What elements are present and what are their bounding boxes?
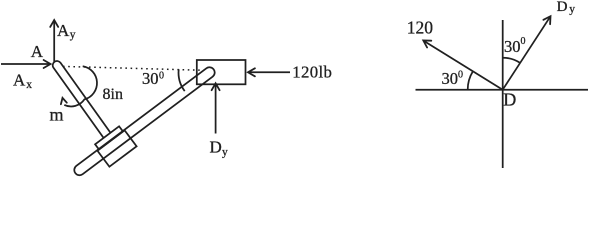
reaction arrow Ax [1, 60, 51, 68]
label Dy vector (right figure) [557, 0, 576, 16]
svg-text:y: y [569, 4, 575, 16]
rod CD (long link at 30deg to box) [72, 65, 217, 177]
label Ax [13, 71, 32, 92]
x axis (right figure) [416, 89, 589, 91]
label 30deg (left figure) [142, 69, 164, 88]
y axis (right figure) [502, 20, 504, 168]
svg-text:30: 30 [142, 69, 159, 88]
svg-text:A: A [57, 21, 70, 40]
label 30deg upper (right figure) [504, 36, 526, 56]
svg-text:m: m [50, 105, 64, 125]
svg-text:y: y [70, 29, 76, 41]
svg-text:0: 0 [458, 70, 463, 81]
label 30deg lower-left (right figure) [442, 69, 464, 88]
angle arc 30deg at end of rod CD [179, 69, 185, 91]
vector 120 (right figure) [423, 41, 502, 90]
reaction arrow Dy (left figure) [212, 83, 220, 133]
svg-text:x: x [26, 79, 32, 91]
angle arc 30deg upper (right figure) [503, 58, 520, 63]
svg-text:D: D [503, 90, 516, 110]
dotted reference line [63, 66, 204, 70]
svg-text:D: D [210, 138, 222, 157]
vector Dy (right figure) [503, 16, 551, 90]
svg-text:0: 0 [521, 36, 526, 47]
svg-text:30: 30 [504, 37, 521, 56]
slider collar on rod CD [97, 130, 136, 166]
svg-text:8in: 8in [103, 86, 123, 103]
svg-text:30: 30 [442, 69, 459, 88]
box (applied force block) [197, 60, 246, 84]
svg-text:A: A [31, 42, 44, 61]
rod AB (link from pin A) [51, 59, 111, 138]
label Dy (left figure) [210, 138, 229, 159]
slider T-cap at end of rod AB [95, 126, 123, 149]
svg-text:D: D [557, 0, 568, 15]
moment arrow m (circular arc with arrowhead) [61, 66, 97, 106]
reaction arrow Ay [50, 20, 58, 62]
svg-text:120: 120 [407, 17, 434, 37]
label Ay [57, 21, 76, 41]
angle arc 30deg left of origin (right figure) [468, 71, 473, 89]
svg-text:120lb: 120lb [292, 63, 332, 82]
svg-text:A: A [13, 71, 26, 90]
svg-text:y: y [222, 147, 228, 159]
svg-text:0: 0 [159, 71, 164, 82]
force arrow 120lb [248, 68, 290, 76]
